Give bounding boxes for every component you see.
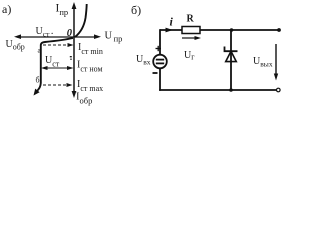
svg-text:б: б [36, 76, 40, 85]
reverse branch curve with stabilization region [37, 38, 74, 92]
node junction bottom (diode return) [229, 88, 233, 92]
svg-text:R: R [187, 14, 195, 25]
DC source Uвх (circle with = bars) [153, 55, 167, 69]
svg-text:а): а) [2, 2, 11, 16]
Uст dimension arrow (at Iст ном level) [41, 66, 74, 70]
dashed level Iст max [43, 83, 73, 87]
wire: source top to resistor [160, 29, 182, 31]
dashed level Iст min [43, 43, 74, 47]
plus sign [156, 46, 162, 51]
wire: resistor to top-right terminal [200, 29, 278, 31]
zener triangle (anode) [226, 51, 237, 61]
U axis horizontal (Uобр left / Uпр right) [14, 34, 101, 39]
forward branch curve [75, 4, 87, 37]
svg-text:Uг: Uг [184, 50, 195, 62]
axis tick artifact [70, 56, 72, 60]
output terminal top [277, 28, 281, 32]
svg-text:б): б) [131, 3, 141, 17]
output terminal bottom [277, 88, 281, 92]
wire: bottom rail [159, 89, 277, 91]
UR arrow under resistor [182, 36, 201, 40]
wire: source bottom down [159, 68, 161, 91]
I axis vertical (Iпр up / Iобр down) [72, 2, 77, 98]
Uвых arrow [274, 44, 278, 81]
zener diode VD branch wire [230, 30, 232, 90]
node junction top (diode tap) [230, 28, 234, 32]
resistor R [182, 27, 200, 34]
current arrow i on wire [166, 28, 174, 33]
minus sign [153, 72, 158, 74]
zener cathode bar with hook [225, 47, 238, 52]
wire: source vertical up [159, 29, 161, 55]
